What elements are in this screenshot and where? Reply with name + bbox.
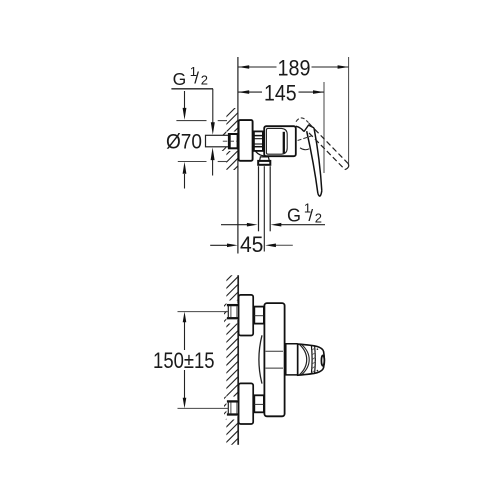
dimension 189 [238,66,348,68]
svg-text:150±15: 150±15 [153,348,215,373]
lever hub dome [296,126,304,131]
svg-text:2: 2 [201,72,208,87]
outlet transition piece [260,157,270,161]
top escutcheon slab [239,295,254,336]
hub hidden edge (dashed) [298,136,313,141]
extension line right 145 [323,82,325,173]
svg-text:/: / [194,69,199,88]
dimension line 150±15 [184,319,186,350]
leader arrow from G1/2 down to inlet stub top [212,89,214,124]
stub centerline (dashed) [223,140,237,142]
bottom union nut (bold, in wall) [227,400,239,416]
extension lines 150±15 [178,311,229,313]
lever raised tip arc [345,163,349,169]
valve body (side view) [264,126,296,156]
hub bottom arc [300,148,309,150]
neck (cartridge housing) [285,344,298,375]
cartridge edge bold line [283,132,285,154]
lever heel raised (dashed) [296,118,309,123]
handle end lens [321,355,324,365]
extension line right 189 [348,57,350,166]
outlet elbow below body [256,151,267,156]
lever blade (closed position) [314,128,322,191]
wall face line (bottom view) [237,275,239,304]
cartridge sleeve inside body [266,128,287,154]
handle cap (plan view) [298,344,325,375]
bottom escutcheon slab [239,383,254,424]
lever raised top edge (dashed) [309,123,348,163]
body waist arc [259,335,262,383]
svg-text:145: 145 [264,81,297,106]
svg-text:G: G [173,69,187,89]
outlet pipe [258,166,260,231]
wall face / extension line (left, top view) [237,57,239,254]
Ø70 arrows [184,91,186,109]
outlet union nut (bold) [258,161,270,165]
leader line with arrow to pipe [277,224,325,226]
svg-text:2: 2 [315,210,322,225]
outlet pipe centerline [263,166,265,251]
label G 1/2 top-left [173,64,208,89]
union nut between flange and body [254,131,263,151]
top S-union [254,307,264,324]
bottom S-union [254,395,264,412]
wall hatching bottom view [222,265,242,454]
handle face dots [317,348,319,350]
arrow to pipe left edge [221,224,248,226]
dimension 45 [210,244,230,246]
top union nut (bold, in wall) [227,303,239,319]
handle base edge [297,344,299,376]
handle dome arcs [299,344,306,375]
mixer body (plan view) [264,303,284,416]
arrow up to inlet stub bottom [212,160,214,176]
svg-text:/: / [308,206,313,225]
escutcheon flange (side view) [239,120,253,161]
dimension Ø70 extension lines [176,120,206,122]
wall hatching top view [222,101,242,182]
handle knurl band [310,345,313,374]
lever heel (closed position) [304,125,314,132]
inlet stub pipe behind wall [206,135,229,147]
svg-text:Ø70: Ø70 [166,130,202,153]
body shoulder lines [266,350,284,352]
label G 1/2 bottom-right [287,201,322,226]
svg-text:45: 45 [240,232,264,257]
underline G1/2 top-left [171,88,213,90]
svg-text:189: 189 [278,56,311,81]
wall socket (bold) [229,134,238,148]
lever raised bottom edge (dashed) [309,133,345,170]
svg-text:G: G [287,206,301,226]
dimension 145 [238,91,324,93]
